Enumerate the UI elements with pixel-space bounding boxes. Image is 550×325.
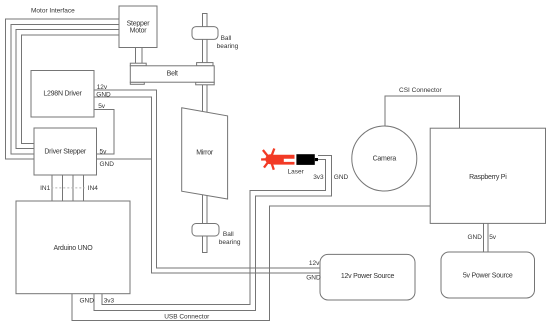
svg-text:CSI Connector: CSI Connector: [399, 87, 442, 94]
svg-text:5v Power Source: 5v Power Source: [463, 273, 513, 280]
svg-text:Ball: Ball: [221, 35, 232, 42]
svg-text:12v: 12v: [97, 84, 108, 91]
svg-text:Arduino UNO: Arduino UNO: [54, 245, 94, 252]
svg-text:IN1: IN1: [40, 185, 51, 192]
svg-text:Driver Stepper: Driver Stepper: [44, 149, 87, 156]
svg-text:Camera: Camera: [373, 156, 397, 163]
svg-text:Motor Interface: Motor Interface: [31, 8, 75, 15]
svg-text:Stepper: Stepper: [127, 20, 151, 27]
svg-text:12v Power Source: 12v Power Source: [341, 273, 395, 280]
svg-text:Belt: Belt: [167, 71, 178, 78]
svg-text:USB Connector: USB Connector: [164, 313, 210, 320]
svg-text:bearing: bearing: [217, 43, 239, 50]
svg-text:GND: GND: [96, 91, 111, 98]
svg-text:bearing: bearing: [219, 239, 241, 246]
svg-text:5v: 5v: [98, 103, 106, 110]
svg-text:GND: GND: [306, 274, 321, 281]
svg-text:12v: 12v: [309, 260, 320, 267]
svg-text:GND: GND: [334, 174, 349, 181]
svg-text:Ball: Ball: [223, 231, 234, 238]
svg-text:3v3: 3v3: [313, 174, 324, 181]
svg-text:3v3: 3v3: [104, 298, 115, 305]
svg-text:5v: 5v: [489, 234, 497, 241]
svg-text:5v: 5v: [100, 148, 108, 155]
svg-text:GND: GND: [80, 298, 95, 305]
svg-text:Mirror: Mirror: [196, 150, 214, 157]
svg-text:Motor: Motor: [130, 27, 148, 34]
svg-text:GND: GND: [100, 161, 115, 168]
svg-text:IN4: IN4: [88, 185, 99, 192]
svg-text:GND: GND: [468, 234, 483, 241]
svg-text:Raspberry Pi: Raspberry Pi: [469, 174, 507, 181]
svg-text:Laser: Laser: [288, 169, 305, 176]
svg-text:L298N Driver: L298N Driver: [43, 91, 82, 98]
